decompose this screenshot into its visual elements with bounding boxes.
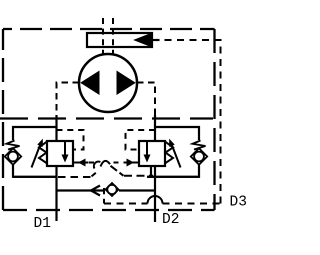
relief valve RV2 body — [139, 141, 165, 166]
wire: flushing pilot left (dashed vertical) — [102, 18, 104, 54]
flushing valve arrow — [135, 33, 152, 47]
check valve CV2 body (diamond + ball) — [191, 148, 207, 164]
wire: right bus — [147, 176, 199, 178]
wire: crossover pilot dashed right — [124, 175, 153, 177]
crossover hop arc — [101, 161, 111, 167]
relief valve RV1 internal arrow — [64, 141, 66, 156]
svg-text:D2: D2 — [162, 212, 179, 228]
relief valve RV1 body — [47, 141, 73, 166]
orifice arc small — [94, 162, 101, 169]
wire: check branch top left — [13, 127, 57, 140]
relief valve RV1 spring — [39, 142, 47, 164]
flushing valve body V3 — [87, 33, 152, 47]
wire: check branch top right — [155, 127, 199, 140]
wire: work line B upper — [154, 115, 156, 141]
wire: drain riser (dashed vertical) — [159, 40, 221, 204]
check valve CV1 spring — [7, 141, 20, 150]
wire: drain line to D3 (dashed with hop) — [104, 203, 148, 205]
wire: RV1 pilot dashed — [57, 130, 84, 150]
wire: valve-to-valve pilot dashed with orifice — [89, 162, 95, 164]
wire: work line A upper — [55, 115, 57, 141]
crossover diagonal left — [92, 173, 96, 177]
wire: flushing pilot right (dashed vertical) — [112, 18, 114, 54]
wire: work line B lower to D2 — [154, 166, 156, 222]
module divider dashed line — [0, 117, 213, 119]
flow arrowhead open — [91, 186, 100, 196]
relief valve RV2 adjust arrow — [172, 144, 181, 168]
hydraulic motor M1 circle — [79, 54, 137, 112]
drain hop over work line B — [148, 196, 163, 203]
motor triangle left — [80, 71, 99, 96]
motor triangle right — [117, 71, 136, 96]
wire: RV2 pilot dashed — [126, 130, 156, 150]
enclosure outer dashed box — [3, 29, 215, 210]
wire: work line A lower to D1 — [55, 166, 57, 221]
wire: bottom flushing line — [57, 189, 106, 191]
svg-text:D3: D3 — [230, 195, 247, 211]
wire: check CV2 bottom to bus — [147, 165, 199, 177]
check valve CV1 body (diamond + ball) — [5, 148, 21, 164]
relief valve RV2 spring — [165, 142, 173, 164]
RV2 outlet arrow — [124, 162, 140, 164]
wire: RV2 outlet to bus — [150, 166, 152, 177]
wire: crossover pilot dashed left — [58, 176, 91, 178]
wire: left bus — [13, 176, 57, 178]
wire: motor right pilot dashed — [137, 83, 155, 117]
shuttle check (diamond + ball) — [106, 183, 119, 196]
relief valve RV2 internal arrow — [146, 141, 148, 156]
check valve CV2 spring — [193, 141, 206, 150]
relief valve RV1 adjust arrow — [32, 144, 41, 168]
RV1 outlet arrow — [73, 162, 89, 164]
crossover diagonal right — [111, 166, 124, 176]
wire: motor left pilot dashed — [57, 83, 80, 117]
wire: check CV1 bottom to bus — [13, 165, 57, 177]
svg-text:D1: D1 — [34, 216, 51, 232]
wire: drain branch down (dashed) — [103, 188, 105, 204]
wire: flushing valve outlet tail — [149, 39, 160, 41]
